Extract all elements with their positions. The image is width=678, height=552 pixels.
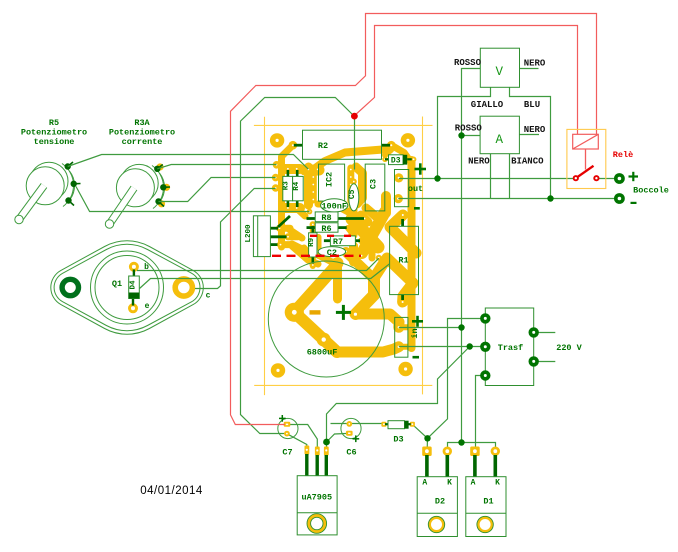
diode D1 bbox=[466, 447, 506, 537]
pad R9 bottom bbox=[310, 262, 316, 268]
potentiometer R3A shaft bbox=[105, 188, 134, 228]
svg-text:R8: R8 bbox=[321, 213, 331, 223]
svg-text:V: V bbox=[496, 65, 504, 79]
wire copper cap plus pad right horizontal to bar bbox=[356, 314, 399, 327]
wire Q1 emitter diode to board bbox=[140, 264, 390, 289]
transformer Trasf box bbox=[485, 308, 533, 386]
pad R2 left bbox=[289, 141, 298, 150]
wire Trasf T2 to in minus bbox=[399, 346, 486, 348]
pads of PCB copper bbox=[270, 133, 417, 377]
svg-text:K: K bbox=[447, 479, 452, 488]
wire V meter GIALLO to plus line bbox=[438, 87, 491, 178]
svg-text:Relè: Relè bbox=[613, 150, 633, 160]
wire board outline net from node A to C7 minus bbox=[241, 98, 355, 434]
pad R3 bottom bbox=[285, 205, 292, 212]
board edge right bbox=[422, 117, 424, 395]
svg-text:tensione: tensione bbox=[34, 137, 75, 147]
capacitor C7 bbox=[278, 415, 298, 458]
out plus marker bbox=[415, 163, 427, 174]
wire A meter BIANCO stub bbox=[509, 154, 511, 199]
potentiometer R3A body bbox=[116, 164, 164, 208]
svg-text:R3A: R3A bbox=[134, 118, 150, 128]
svg-text:BIANCO: BIANCO bbox=[511, 156, 544, 166]
wire copper R9 top stub bbox=[310, 225, 316, 233]
pad D3 right bbox=[411, 157, 417, 163]
copper minus mark of 6800uF bbox=[310, 310, 321, 314]
pad L200 pin 1 bbox=[276, 225, 283, 232]
transistor Q1 left mounting hole bbox=[62, 279, 78, 295]
wire copper wide diagonal band below C3 bbox=[352, 219, 378, 247]
board edge bottom bbox=[254, 384, 432, 386]
green wires bbox=[68, 69, 620, 450]
pad L200 pin 2 bbox=[285, 233, 292, 240]
svg-text:ROSSO: ROSSO bbox=[455, 124, 483, 134]
wire Q1 collector to board bbox=[195, 189, 276, 289]
pad C2 left bbox=[315, 248, 321, 254]
svg-text:NERO: NERO bbox=[524, 59, 546, 69]
connector out outline bbox=[395, 170, 409, 207]
pad L200 pin 3 bbox=[277, 241, 284, 248]
wire Q1 base to board bbox=[137, 258, 379, 270]
wire copper blob IC2 top left pads bbox=[305, 165, 319, 176]
pad board edge W5 end bbox=[272, 184, 280, 192]
potentiometer R5 terminals bbox=[65, 162, 80, 206]
svg-text:R1: R1 bbox=[398, 256, 408, 266]
wire copper below R4 bbox=[298, 209, 306, 216]
wire copper vertical bar left of cap plus bbox=[333, 263, 342, 299]
wire copper below IC2 to R8 bbox=[337, 206, 360, 218]
node C6 uA7905 junction bbox=[323, 439, 330, 446]
label R5 Potenziometro tensione bbox=[21, 118, 87, 147]
wire copper cap minus pad up-right diagonal bbox=[294, 263, 337, 312]
wire copper cap plus pad up diagonal bbox=[356, 278, 374, 314]
node GIALLO plus junction bbox=[434, 175, 440, 181]
wire A meter NERO bottom stub bbox=[490, 154, 492, 199]
svg-text:A: A bbox=[471, 479, 476, 488]
wire copper R9 bottom stub bbox=[310, 257, 316, 266]
electrolytic capacitor 6800uF circle bbox=[268, 261, 384, 377]
wire copper L200 to cap area bbox=[292, 246, 318, 264]
wire copper stub to in minus pad bbox=[399, 344, 412, 350]
diode D4 pads inside Q1 bbox=[130, 263, 137, 270]
svg-text:D2: D2 bbox=[435, 497, 445, 507]
svg-text:GIALLO: GIALLO bbox=[471, 100, 504, 110]
voltmeter V bbox=[480, 48, 519, 87]
wire copper under 100nF bbox=[318, 201, 344, 208]
pad out minus bbox=[394, 194, 403, 203]
wire copper blob right of R8 lead bbox=[361, 215, 368, 222]
wire ROSSO vertical net bbox=[462, 69, 481, 443]
resistor R9 bbox=[308, 226, 317, 264]
svg-text:R3: R3 bbox=[283, 181, 291, 191]
wire copper R6 right to R7 bbox=[348, 228, 352, 240]
svg-text:Potenziometro: Potenziometro bbox=[109, 128, 175, 138]
red wire inner to relay coil left bbox=[355, 26, 578, 135]
resistor R4 bbox=[293, 170, 304, 207]
pad R2 right bbox=[387, 141, 396, 150]
wire copper under C2 left bbox=[320, 256, 332, 262]
IC op-amp IC2 bbox=[319, 164, 345, 201]
voltage regulator uA7905 bbox=[297, 446, 337, 535]
svg-text:220 V: 220 V bbox=[556, 343, 582, 353]
wire Trasf T3 to D1 anode bbox=[476, 376, 486, 450]
Boccole minus terminal bbox=[614, 193, 625, 204]
svg-text:R6: R6 bbox=[321, 224, 331, 234]
svg-text:e: e bbox=[145, 302, 150, 311]
wire copper C2 right to cap plus column bbox=[346, 252, 374, 279]
wire copper blob near D3 left bbox=[385, 150, 391, 155]
pad W6 end bbox=[376, 255, 382, 261]
resistor R8 bbox=[307, 212, 365, 223]
junction dots bbox=[323, 132, 554, 445]
svg-text:R7: R7 bbox=[333, 237, 343, 247]
potentiometer R3A terminals with yellow pads bbox=[156, 163, 170, 207]
pad below cap center bbox=[317, 333, 331, 347]
node in minus junction bbox=[467, 343, 473, 349]
svg-text:Q1: Q1 bbox=[112, 279, 122, 289]
wire copper around L200 pads bbox=[280, 225, 291, 232]
wire relay to Boccole plus bbox=[597, 178, 620, 180]
black labels of meters bbox=[454, 58, 546, 166]
wire A meter NERO stub bbox=[519, 134, 539, 136]
pad C2 right bbox=[343, 248, 349, 254]
wire copper stub to in plus pad bbox=[399, 324, 412, 330]
svg-text:BLU: BLU bbox=[524, 100, 540, 110]
in minus marker bbox=[413, 356, 420, 359]
pad W2 end bbox=[307, 209, 313, 215]
pad in plus bbox=[394, 323, 403, 332]
pad right of C2 dashes bbox=[358, 253, 364, 259]
capacitor C5 bbox=[348, 184, 359, 211]
transistor Q1 TO-3 outline bbox=[51, 241, 204, 334]
wire copper band left of R1 top bbox=[381, 196, 391, 213]
Boccole plus marker bbox=[629, 172, 639, 181]
wire copper right of R9 bbox=[316, 237, 322, 256]
wire copper blob around R3 R4 bottom pads bbox=[284, 203, 300, 213]
resistor R7 bbox=[324, 236, 360, 247]
wire copper stub right of C2 bbox=[346, 252, 356, 256]
diode D4 body bbox=[129, 276, 140, 299]
wire D3 cathode to D2 anode node bbox=[412, 424, 427, 438]
connector in outline bbox=[395, 317, 408, 357]
svg-text:c: c bbox=[206, 292, 211, 301]
wire copper diag at R7 right bbox=[362, 241, 373, 258]
svg-text:D4: D4 bbox=[129, 280, 137, 290]
svg-text:K: K bbox=[495, 479, 500, 488]
wire R3A terminal 3 to board bbox=[159, 178, 276, 202]
wire R3A terminal 1 to board bbox=[157, 165, 276, 169]
wire copper fat trace under R2 into IC2 top left bbox=[314, 149, 389, 169]
green plus mark of 6800uF bbox=[336, 305, 351, 320]
capacitor C6 bbox=[341, 418, 361, 457]
svg-text:A: A bbox=[422, 479, 427, 488]
wire copper cap bottom horizontal to in minus bbox=[337, 347, 399, 352]
red wire outer from C7 plus to relay coil right bbox=[231, 14, 597, 425]
wire copper right edge vertical bar bbox=[408, 160, 416, 348]
node A red junction dot bbox=[351, 113, 358, 120]
wire in plus line bbox=[399, 327, 462, 329]
svg-text:C7: C7 bbox=[282, 448, 292, 458]
svg-text:R9: R9 bbox=[308, 237, 316, 247]
svg-text:R2: R2 bbox=[318, 141, 328, 151]
wire V meter BLU to minus line bbox=[510, 87, 551, 198]
wire copper diagonal R1 top to C2 pad bbox=[363, 212, 385, 253]
out minus marker bbox=[414, 207, 420, 210]
pad mounting hole top left bbox=[270, 133, 284, 147]
svg-text:IC2: IC2 bbox=[325, 172, 335, 187]
wire copper river right of IC2 bbox=[347, 168, 354, 201]
svg-text:04/01/2014: 04/01/2014 bbox=[140, 485, 203, 497]
wire copper L200 to R9 bundle bbox=[290, 230, 302, 238]
pad R1 top bbox=[399, 211, 408, 220]
wire copper right of C3 bottom bbox=[366, 208, 380, 220]
wire copper diag R1 band lower bbox=[374, 258, 413, 302]
resistor R1 bbox=[390, 219, 419, 300]
wire plus line out to relay bbox=[399, 178, 576, 180]
svg-text:R5: R5 bbox=[49, 118, 59, 128]
potentiometer R5 body bbox=[26, 162, 74, 206]
ratsnest dashed red line C2 lower bbox=[272, 255, 361, 257]
svg-text:C5: C5 bbox=[348, 189, 357, 199]
resistor R2 bbox=[294, 130, 390, 159]
wire T2 branch to uA7905 and C6 bbox=[327, 347, 470, 450]
potentiometer R5 shaft bbox=[15, 186, 44, 224]
diode D4 leads bbox=[133, 270, 135, 278]
wire copper vertical band right of R7 bbox=[349, 196, 358, 235]
wire copper C5 bottom stub bbox=[351, 212, 356, 217]
wire node to C6 minus pad bbox=[327, 433, 350, 442]
label R3A Potenziometro corrente bbox=[109, 118, 175, 147]
board outline bbox=[254, 117, 433, 396]
Boccole minus marker bbox=[631, 202, 637, 204]
svg-text:100nF: 100nF bbox=[321, 202, 347, 212]
pad R8 right lead end bbox=[361, 215, 367, 221]
node D2 anode junction bbox=[424, 435, 430, 441]
wire to D2 cathode bbox=[448, 443, 462, 450]
pad R1 bottom bbox=[398, 298, 407, 307]
diode D2 bbox=[417, 447, 457, 537]
svg-text:in: in bbox=[410, 328, 420, 338]
in plus marker bbox=[412, 316, 423, 327]
wire copper trace from R2 left pad down left column bbox=[282, 145, 293, 247]
svg-text:ROSSO: ROSSO bbox=[454, 58, 482, 68]
wire copper blob around R3 R4 top pads bbox=[284, 164, 300, 174]
svg-text:out: out bbox=[408, 184, 423, 194]
wire copper river left of IC2 bbox=[304, 167, 313, 205]
ratsnest dashed red line C2 upper bbox=[310, 235, 360, 237]
wire C7 minus to uA7905 left leg bbox=[289, 435, 307, 449]
copper traces of PCB bbox=[280, 145, 417, 352]
pad IC2 pin row right bbox=[348, 166, 354, 172]
wire minus line out to Boccole minus bbox=[398, 198, 619, 200]
svg-text:C3: C3 bbox=[369, 179, 379, 189]
wire A meter ROSSO lead bbox=[462, 135, 481, 137]
pad R3 top bbox=[285, 165, 292, 172]
pad R4 bottom bbox=[293, 205, 300, 212]
ammeter A bbox=[480, 116, 519, 154]
pad board edge W3 end bbox=[273, 161, 281, 169]
pad capacitor C1 plus hole bbox=[354, 313, 357, 316]
wire to D1 cathode bbox=[462, 443, 496, 450]
node BLU minus junction bbox=[547, 195, 553, 201]
svg-text:D3: D3 bbox=[393, 435, 403, 445]
wire C6 plus to D3 anode bbox=[331, 423, 384, 425]
svg-text:Potenziometro: Potenziometro bbox=[21, 128, 87, 138]
diode D3 on board bbox=[385, 155, 412, 166]
wire R5 wiper to board bbox=[76, 187, 310, 212]
relay Rele bbox=[567, 129, 633, 188]
wire node A stem to IC2 pin bbox=[354, 116, 356, 170]
resistor R3 bbox=[283, 170, 293, 207]
wire Trasf T1 to D2 anode bbox=[427, 319, 485, 450]
svg-text:6800uF: 6800uF bbox=[307, 348, 338, 358]
wire copper diag into R1 band upper bbox=[390, 215, 416, 253]
Boccole plus terminal bbox=[614, 173, 625, 184]
wire R5 terminal 1 to IC2 pad bbox=[68, 155, 309, 170]
transformer terminals bbox=[480, 313, 539, 381]
capacitor C2 bbox=[318, 247, 345, 258]
capacitor C3 bbox=[365, 164, 385, 211]
transistor Q1 right mounting hole bbox=[175, 279, 192, 296]
svg-text:C6: C6 bbox=[346, 448, 356, 458]
pad mounting hole bottom right bbox=[398, 362, 412, 376]
svg-text:R4: R4 bbox=[293, 181, 301, 191]
pad in minus bbox=[394, 342, 403, 351]
wire Trasf 220V top bbox=[534, 332, 556, 334]
capacitor 100nF bbox=[321, 199, 348, 212]
wire Trasf 220V bottom bbox=[534, 361, 556, 363]
wire V meter NERO stub bbox=[520, 68, 539, 70]
board edge left bbox=[264, 117, 266, 395]
svg-text:corrente: corrente bbox=[122, 137, 163, 147]
pad mounting hole bottom left bbox=[271, 363, 285, 377]
board edge top bbox=[254, 124, 433, 126]
node in plus junction bbox=[458, 324, 464, 330]
node diode cathodes junction bbox=[458, 439, 464, 445]
svg-text:D1: D1 bbox=[483, 497, 493, 507]
pad mounting hole top right bbox=[401, 133, 415, 147]
pad board edge W4 end bbox=[272, 174, 280, 182]
voltage regulator L200 bbox=[245, 216, 290, 257]
wire copper between IC2 and C3 bbox=[356, 167, 363, 204]
wire copper cap minus pad down-right diagonal bbox=[294, 312, 337, 352]
pad IC2 pin row left bbox=[305, 166, 311, 172]
svg-text:NERO: NERO bbox=[524, 125, 546, 135]
svg-text:uA7905: uA7905 bbox=[301, 493, 332, 503]
pad R9 top bbox=[310, 221, 316, 227]
resistor R6 bbox=[307, 223, 347, 234]
node ROSSO A junction bbox=[458, 132, 464, 138]
pad out plus bbox=[394, 173, 403, 182]
svg-text:A: A bbox=[495, 133, 503, 147]
pad capacitor C1 minus bbox=[285, 303, 304, 322]
wire copper trace R2 right pad to right edge bar bbox=[391, 145, 411, 163]
svg-text:NERO: NERO bbox=[468, 156, 490, 166]
svg-text:D3: D3 bbox=[391, 157, 401, 166]
svg-text:Boccole: Boccole bbox=[633, 186, 669, 196]
pad D3 left bbox=[382, 157, 388, 163]
pad C5 top bbox=[351, 179, 357, 185]
diode D3 bottom bbox=[381, 421, 415, 445]
svg-text:Trasf: Trasf bbox=[498, 343, 524, 353]
svg-text:L200: L200 bbox=[245, 224, 253, 243]
wire C7 plus to uA7905 middle leg bbox=[290, 425, 317, 450]
pad R4 top bbox=[293, 165, 300, 172]
